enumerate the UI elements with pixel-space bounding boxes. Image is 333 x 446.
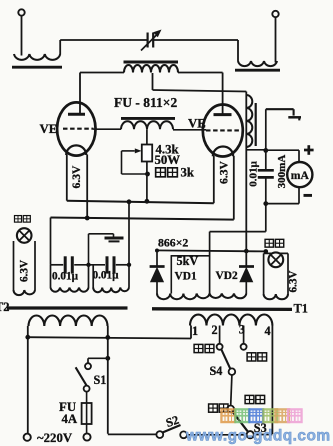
svg-text:6.3V: 6.3V: [19, 260, 31, 282]
svg-text:300mA: 300mA: [276, 155, 288, 189]
svg-text:S2: S2: [164, 413, 181, 430]
svg-text:0.01µ: 0.01µ: [247, 161, 259, 187]
svg-text:50W: 50W: [155, 153, 181, 167]
svg-text:T2: T2: [0, 300, 9, 314]
svg-text:VE: VE: [40, 122, 58, 136]
svg-text:6.3V: 6.3V: [70, 165, 83, 188]
svg-text:www.go-gddq.com: www.go-gddq.com: [185, 427, 331, 444]
svg-text:866×2: 866×2: [158, 236, 188, 250]
svg-text:3: 3: [239, 323, 245, 337]
svg-text:VD2: VD2: [216, 270, 238, 282]
svg-text:1: 1: [192, 324, 198, 338]
svg-text:S1: S1: [94, 373, 107, 387]
svg-text:4A: 4A: [62, 412, 78, 426]
svg-text:mA: mA: [291, 169, 310, 182]
svg-text:~220V: ~220V: [37, 431, 73, 445]
svg-text:3k: 3k: [181, 166, 195, 180]
svg-text:0.01µ: 0.01µ: [52, 270, 79, 282]
svg-text:6.3V: 6.3V: [287, 270, 299, 292]
svg-text:2: 2: [212, 323, 218, 337]
svg-text:6.3V: 6.3V: [217, 160, 230, 183]
svg-text:T1: T1: [294, 302, 308, 316]
svg-text:0.01µ: 0.01µ: [93, 269, 120, 281]
svg-text:4: 4: [265, 324, 271, 338]
svg-text:S4: S4: [210, 364, 223, 378]
svg-text:VD1: VD1: [175, 270, 197, 282]
svg-text:FU - 811×2: FU - 811×2: [114, 95, 177, 110]
svg-text:VE: VE: [188, 117, 206, 131]
svg-text:5kV: 5kV: [177, 254, 199, 268]
